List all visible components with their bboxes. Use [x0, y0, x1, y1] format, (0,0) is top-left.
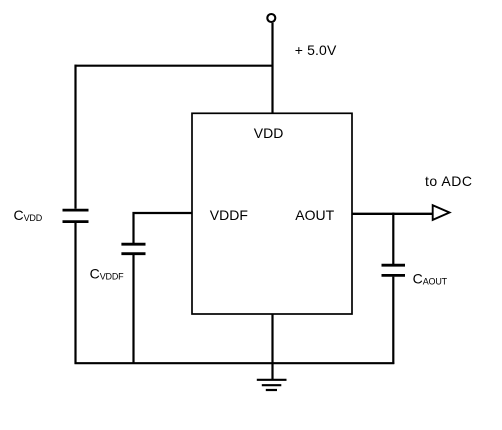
wire: ground bus [75, 362, 395, 364]
+5V supply terminal [267, 14, 275, 22]
svg-text:to ADC: to ADC [425, 173, 472, 189]
wire: +5V vertical to VDD pin [271, 23, 273, 113]
wire: CVDDF bottom lead [132, 255, 134, 364]
svg-text:VDD: VDD [254, 125, 284, 141]
svg-text:CAOUT: CAOUT [413, 270, 448, 286]
svg-text:CVDD: CVDD [14, 207, 43, 223]
wire: CVDD top lead [74, 65, 76, 209]
svg-text:CVDDF: CVDDF [90, 266, 125, 282]
wire: CAOUT top lead [392, 213, 394, 265]
wire: +5V branch to CVDD [75, 65, 273, 67]
svg-text:AOUT: AOUT [295, 207, 334, 223]
svg-text:+ 5.0V: + 5.0V [295, 42, 337, 58]
to ADC arrow [433, 205, 450, 220]
wire: IC ground pin [271, 314, 273, 364]
capacitor CAOUT [382, 265, 406, 275]
wire: AOUT to ADC [352, 213, 433, 215]
wire: CVDD bottom lead [74, 223, 76, 364]
ground [257, 363, 287, 390]
wire: CAOUT bottom lead [392, 277, 394, 364]
capacitor CVDDF [121, 244, 145, 254]
capacitor CVDD [63, 210, 89, 222]
wire: VDDF pin to CVDDF [134, 213, 193, 244]
svg-text:VDDF: VDDF [210, 207, 248, 223]
IC block [192, 113, 352, 314]
